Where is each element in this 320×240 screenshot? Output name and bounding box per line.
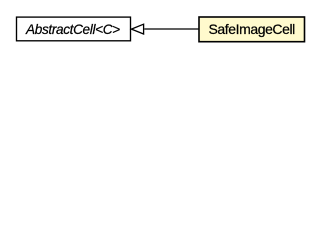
wire — [144, 28, 199, 30]
class box AbstractCell<C> — [17, 17, 131, 41]
inheritance arrowhead — [131, 24, 143, 34]
class box SafeImageCell — [199, 17, 305, 42]
svg-text:SafeImageCell: SafeImageCell — [209, 21, 296, 37]
svg-text:AbstractCell<C>: AbstractCell<C> — [25, 22, 120, 37]
